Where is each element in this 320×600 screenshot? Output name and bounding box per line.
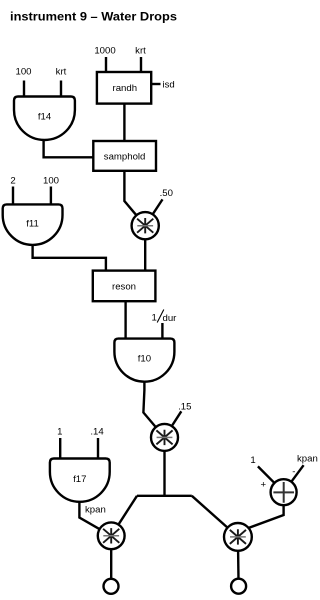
- svg-text:1: 1: [57, 427, 62, 438]
- svg-text:krt: krt: [135, 46, 146, 57]
- svg-text:2: 2: [10, 176, 15, 187]
- svg-text:f10: f10: [138, 354, 151, 365]
- svg-text:isd: isd: [163, 80, 175, 91]
- svg-text:1: 1: [152, 313, 157, 324]
- svg-text:.14: .14: [90, 427, 104, 438]
- svg-text:.50: .50: [160, 188, 173, 199]
- svg-text:krt: krt: [56, 67, 67, 78]
- svg-text:100: 100: [43, 176, 59, 187]
- svg-text:f14: f14: [38, 111, 52, 122]
- svg-text:randh: randh: [113, 83, 138, 94]
- svg-text:instrument 9 – Water Drops: instrument 9 – Water Drops: [10, 10, 177, 24]
- svg-text:f17: f17: [73, 474, 86, 485]
- svg-text:1: 1: [250, 455, 255, 466]
- svg-text:+: +: [260, 479, 266, 490]
- svg-text:100: 100: [15, 67, 31, 78]
- svg-text:1000: 1000: [94, 46, 115, 57]
- svg-text:dur: dur: [163, 313, 178, 324]
- svg-text:samphold: samphold: [104, 152, 146, 163]
- svg-text:.15: .15: [178, 402, 191, 413]
- svg-text:-: -: [292, 467, 295, 478]
- svg-text:kpan: kpan: [85, 505, 106, 516]
- svg-text:kpan: kpan: [297, 454, 318, 465]
- svg-text:reson: reson: [112, 281, 136, 292]
- svg-text:f11: f11: [26, 219, 39, 230]
